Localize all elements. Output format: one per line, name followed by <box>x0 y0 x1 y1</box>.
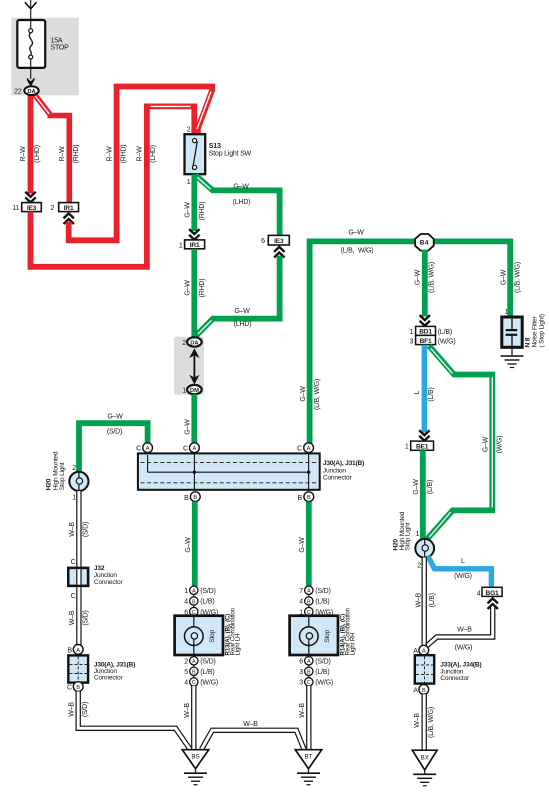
svg-text:(LHD): (LHD) <box>150 145 157 163</box>
label R14 rear combination light RH <box>340 607 357 655</box>
wire feed from stop fuse (page entry) <box>25 0 37 21</box>
svg-text:(S/D): (S/D) <box>82 702 89 717</box>
label G-W (RHD) lower <box>184 279 206 298</box>
connector BD1 pin 1 <box>409 326 451 336</box>
svg-text:2: 2 <box>417 562 421 569</box>
label W-B (S/D) mid left <box>69 610 90 625</box>
svg-text:(S/D): (S/D) <box>200 659 215 666</box>
label G-W (L/B) <box>413 479 434 495</box>
svg-text:2: 2 <box>182 340 186 347</box>
svg-text:W–B: W–B <box>299 703 306 718</box>
svg-text:(L/B): (L/B) <box>200 599 214 606</box>
svg-text:Junction: Junction <box>323 467 346 474</box>
label J30(A), J31(B) junction connector <box>323 460 364 482</box>
label G-W (LHD) upper horizontal <box>233 183 251 206</box>
svg-text:B: B <box>76 685 80 691</box>
rear combination light RH pins bottom <box>299 655 333 687</box>
svg-text:S13: S13 <box>209 143 221 150</box>
svg-text:L: L <box>461 558 465 565</box>
svg-text:B: B <box>184 495 189 502</box>
svg-text:DA: DA <box>190 340 199 346</box>
svg-text:A: A <box>307 446 311 452</box>
svg-text:Stop Light: Stop Light <box>405 522 412 550</box>
label R-W (LHD) wire 1 <box>20 145 41 163</box>
svg-text:BG1: BG1 <box>486 590 499 597</box>
wire G-W bus to B4 and noise filter <box>310 241 511 443</box>
wire R-W RHD from IR1 around to stop light switch <box>69 87 213 241</box>
svg-text:(LHD): (LHD) <box>233 199 251 206</box>
svg-text:G–W: G–W <box>184 202 191 218</box>
svg-text:(W/G): (W/G) <box>200 680 218 687</box>
svg-text:(S/D): (S/D) <box>200 588 215 595</box>
svg-text:(L/B): (L/B) <box>427 480 434 494</box>
wire W-B through J32 <box>68 567 88 646</box>
svg-text:2: 2 <box>72 465 76 472</box>
label N8 noise filter <box>525 314 546 347</box>
svg-text:(W/G): (W/G) <box>497 436 504 454</box>
label W-B (L/B, W/G) bottom right <box>414 707 435 738</box>
svg-text:G–W: G–W <box>233 183 249 190</box>
wire G-W from B4 down to BD1 <box>422 250 428 317</box>
junction pin C(A) left <box>136 443 152 453</box>
ground point BS <box>182 750 208 773</box>
arrow into BE1 <box>419 430 429 441</box>
svg-text:4: 4 <box>184 680 188 687</box>
svg-text:C: C <box>192 680 196 686</box>
svg-text:(L/B): (L/B) <box>429 593 436 607</box>
svg-text:2: 2 <box>187 127 191 134</box>
fuse 15A STOP <box>17 20 69 79</box>
svg-text:R–W: R–W <box>20 146 27 162</box>
junction pin B(B) right <box>298 492 314 502</box>
svg-text:(S/D): (S/D) <box>315 659 330 666</box>
stop light switch S13 <box>185 127 252 186</box>
svg-text:(L/B): (L/B) <box>315 599 329 606</box>
svg-text:B: B <box>307 599 311 605</box>
svg-text:(L/B, W/G): (L/B, W/G) <box>428 262 435 293</box>
svg-text:11: 11 <box>13 205 20 212</box>
svg-text:(RHD): (RHD) <box>120 145 127 164</box>
svg-text:IE3: IE3 <box>274 238 284 245</box>
svg-text:(L/B): (L/B) <box>200 669 214 676</box>
svg-text:3: 3 <box>409 338 413 345</box>
svg-text:B: B <box>67 648 72 655</box>
wire G-W RHD from IR1 to DA <box>191 249 197 338</box>
svg-text:1: 1 <box>416 531 420 538</box>
svg-text:Connector: Connector <box>440 675 470 682</box>
svg-text:G–W: G–W <box>234 308 250 315</box>
connector 2 DA (mating) <box>182 337 201 347</box>
junction connector J30(A) J31(B) small <box>68 655 88 682</box>
node B4 <box>415 234 434 251</box>
svg-text:2: 2 <box>184 659 188 666</box>
svg-text:C: C <box>183 446 188 453</box>
label G-W (L/B, W/G) on B4 horizontal <box>341 229 374 254</box>
label W-B (S/D) bottom left <box>69 702 90 717</box>
svg-text:W–B: W–B <box>69 522 76 537</box>
connector IE3 pin 6 <box>261 235 289 245</box>
svg-text:(W/G): (W/G) <box>455 645 473 652</box>
junction pin C(B) left small <box>67 682 83 692</box>
svg-text:(L/B, W/G): (L/B, W/G) <box>341 247 374 254</box>
wire R-W LHD from DA to IE3 <box>28 94 34 194</box>
label J33(A), J34(B) junction connector <box>440 662 481 682</box>
high mounted stop light H20 left <box>69 465 88 502</box>
label R13 rear combination light LH <box>225 607 242 655</box>
label G-W (L/B, W/G) on B4 drop <box>415 262 436 293</box>
svg-text:7: 7 <box>299 588 303 595</box>
connector BG1 pin 4 <box>477 587 502 597</box>
svg-text:STOP: STOP <box>51 45 70 52</box>
svg-text:A: A <box>192 589 196 595</box>
svg-text:(S/D): (S/D) <box>107 429 122 436</box>
svg-text:G–W: G–W <box>348 229 364 236</box>
connector 22 DA <box>14 86 39 95</box>
svg-text:4: 4 <box>477 590 481 597</box>
svg-text:G–W: G–W <box>185 537 192 553</box>
junction pin C(A) middle <box>183 443 199 453</box>
svg-text:R–W: R–W <box>137 146 144 162</box>
label J30(A), J31(B) small junction connector <box>94 661 135 681</box>
wire W-B lamp RH to ground BT <box>306 686 311 750</box>
svg-text:IR1: IR1 <box>64 205 74 212</box>
mating arrows DA-DM <box>189 348 199 384</box>
svg-text:G–W: G–W <box>482 436 489 452</box>
svg-text:B: B <box>193 495 197 501</box>
svg-text:3: 3 <box>299 669 303 676</box>
svg-text:W–B: W–B <box>243 721 258 728</box>
svg-text:15A: 15A <box>51 38 63 45</box>
rear combination light RH R14 <box>290 616 338 655</box>
connector mating shaded block DA/DM <box>174 337 204 395</box>
svg-text:A: A <box>422 649 426 655</box>
svg-text:B: B <box>298 495 303 502</box>
label W-B (W/G) <box>455 627 473 652</box>
junction pin A(B) right <box>413 685 428 695</box>
rear combination light LH pins top <box>184 586 218 616</box>
svg-text:G–W: G–W <box>184 280 191 296</box>
junction connector J30(A) J31(B) <box>138 453 320 489</box>
svg-text:B: B <box>422 688 426 694</box>
svg-text:A: A <box>192 659 196 665</box>
noise filter N8 <box>502 317 522 355</box>
wire W-B L/B from H20 pin 2 to junction pin A <box>422 558 427 646</box>
svg-text:(L/B): (L/B) <box>428 387 435 401</box>
label L (W/G) <box>454 558 472 580</box>
svg-text:W–B: W–B <box>69 702 76 717</box>
svg-text:J30(A), J31(B): J30(A), J31(B) <box>323 460 364 467</box>
svg-text:6: 6 <box>299 659 303 666</box>
wire G-W from DM to junction connector <box>191 394 197 443</box>
svg-text:5: 5 <box>184 669 188 676</box>
arrow into connector DA <box>27 78 35 88</box>
svg-text:(W/G): (W/G) <box>438 338 456 345</box>
high mounted stop light H20 right <box>415 531 434 569</box>
svg-text:W–B: W–B <box>415 592 422 607</box>
svg-text:(W/G): (W/G) <box>315 680 333 687</box>
svg-text:Light LH: Light LH <box>235 634 242 656</box>
svg-text:C: C <box>136 446 141 453</box>
wire R-W RHD from DA to IR1 <box>33 93 69 203</box>
svg-text:Stop: Stop <box>324 629 331 642</box>
wire G-W L/B from BE1 to H20 right pin 1 <box>420 450 426 540</box>
label G-W (W/G) right loop <box>482 436 503 454</box>
svg-text:Stop Light: Stop Light <box>59 462 66 490</box>
svg-text:IE3: IE3 <box>27 205 37 212</box>
svg-text:W–B: W–B <box>457 627 472 634</box>
connector IR1 pin 2 <box>51 203 79 212</box>
svg-text:R–W: R–W <box>107 146 114 162</box>
svg-text:A: A <box>307 659 311 665</box>
svg-text:BX: BX <box>421 755 429 762</box>
label G-W (S/D) left horizontal <box>107 414 123 436</box>
svg-text:A: A <box>413 687 418 694</box>
wire W-B link BS to BT <box>202 730 305 749</box>
svg-text:(S/D): (S/D) <box>315 588 330 595</box>
arrow into IR1 pin 1 <box>189 229 199 240</box>
wire R-W LHD from IE3 around to stop light switch <box>31 106 195 266</box>
ground point BT <box>295 750 321 773</box>
svg-text:BE1: BE1 <box>416 443 429 450</box>
junction pin B(A) left small <box>67 645 83 655</box>
svg-text:(W/G): (W/G) <box>454 573 472 580</box>
svg-text:C: C <box>71 593 76 600</box>
junction pin A(A) right <box>413 645 428 655</box>
svg-text:A: A <box>146 446 150 452</box>
svg-text:B: B <box>192 670 196 676</box>
svg-text:22: 22 <box>14 89 22 96</box>
wire L blue from BF1 to BE1 <box>422 345 428 433</box>
label W-B (L/B) <box>415 592 435 607</box>
svg-text:1: 1 <box>505 309 509 316</box>
svg-text:(L/B): (L/B) <box>315 669 329 676</box>
rear combination light LH pins bottom <box>184 655 218 687</box>
svg-text:(L/B): (L/B) <box>438 329 452 336</box>
svg-text:W–B: W–B <box>184 703 191 718</box>
label W-B (S/D) upper left <box>69 522 90 537</box>
svg-text:(LHD): (LHD) <box>34 145 41 163</box>
label L (L/B) <box>414 387 435 401</box>
svg-text:(L/B, W/G): (L/B, W/G) <box>314 379 321 410</box>
svg-text:G–W: G–W <box>501 269 508 285</box>
svg-text:G–W: G–W <box>107 414 123 421</box>
junction connector J32 <box>68 559 88 586</box>
svg-text:C: C <box>297 446 302 453</box>
svg-text:(RHD): (RHD) <box>199 202 206 221</box>
arrow into BG1 from below <box>488 598 498 609</box>
svg-text:J32: J32 <box>94 565 105 572</box>
svg-text:A: A <box>192 446 196 452</box>
svg-text:A: A <box>413 648 418 655</box>
label R-W (LHD) wire 4 <box>137 145 158 163</box>
svg-text:1: 1 <box>405 444 409 451</box>
wire G-W from junction connector to left high mounted stop light <box>79 423 148 472</box>
wire G-W LHD from IE3 pin6 back to DA <box>196 256 280 336</box>
junction connector J33(A) J34(B) <box>415 655 434 683</box>
svg-text:R–W: R–W <box>59 146 66 162</box>
wire W-B from C(B) to ground BS <box>78 692 189 749</box>
svg-text:B: B <box>307 495 311 501</box>
svg-text:DM: DM <box>190 388 199 394</box>
connector BF1 pin 3 <box>409 335 455 345</box>
svg-text:G–W: G–W <box>300 386 307 402</box>
svg-text:(L/B, W/G): (L/B, W/G) <box>428 707 435 738</box>
svg-text:Connector: Connector <box>94 675 124 682</box>
junction pin B(B) left <box>184 492 200 502</box>
svg-text:W–B: W–B <box>414 713 421 728</box>
wire W-B from A(B) to ground BX <box>422 694 427 750</box>
label G-W (RHD) upper <box>184 202 206 221</box>
label G-W (L/B, W/G) right drop <box>501 262 522 293</box>
svg-text:1: 1 <box>409 329 413 336</box>
svg-text:DA: DA <box>27 89 36 95</box>
svg-text:BS: BS <box>191 754 199 761</box>
svg-text:B: B <box>307 670 311 676</box>
svg-text:IR1: IR1 <box>190 242 200 249</box>
wire L W/G blue from H20 pin 2 to BG1 <box>428 557 491 588</box>
svg-text:1: 1 <box>187 179 191 186</box>
connector 1 DM (mating) <box>182 385 201 395</box>
svg-text:6: 6 <box>261 238 265 245</box>
svg-text:Stop Light SW: Stop Light SW <box>209 151 252 158</box>
svg-text:Noise Filter: Noise Filter <box>532 316 539 348</box>
connector IE3 pin 11 <box>13 203 42 212</box>
svg-text:G–W: G–W <box>413 479 420 495</box>
arrow into IR1 from below <box>63 213 73 224</box>
svg-text:Connector: Connector <box>323 475 353 482</box>
svg-text:C: C <box>307 680 311 686</box>
svg-text:C: C <box>67 685 72 692</box>
svg-text:Light RH: Light RH <box>350 633 357 656</box>
svg-text:G–W: G–W <box>415 269 422 285</box>
svg-text:2: 2 <box>51 205 55 212</box>
svg-text:G–W: G–W <box>184 419 191 435</box>
rear combination light RH pins top <box>299 586 333 616</box>
svg-text:1: 1 <box>184 588 188 595</box>
svg-text:(RHD): (RHD) <box>73 145 80 164</box>
rear combination light LH R13 <box>175 616 223 655</box>
svg-text:4: 4 <box>184 599 188 606</box>
power source shaded block <box>11 18 78 96</box>
wire G-W W/G from BF1 looping right to H20 pin 1 <box>427 346 492 539</box>
wire G-W junction to rear combination LH <box>192 502 198 587</box>
arrow into IE3 <box>25 192 35 203</box>
svg-text:(S/D): (S/D) <box>83 610 90 625</box>
svg-text:1: 1 <box>72 494 76 501</box>
wire W-B W/G from BG1 to junction <box>425 607 493 650</box>
wire G-W junction to rear combination RH <box>306 502 312 587</box>
junction pin C(A) right <box>297 443 314 453</box>
ground below noise filter <box>501 356 524 368</box>
arrow into BD1 <box>420 315 430 326</box>
svg-text:1: 1 <box>182 388 186 395</box>
label H20 high mounted stop light right <box>393 511 412 550</box>
svg-text:(LHD): (LHD) <box>234 321 252 328</box>
label R-W (RHD) wire 2 <box>59 145 80 164</box>
label G-W (L/B, W/G) on x310 drop <box>300 379 321 410</box>
svg-text:C: C <box>71 559 76 566</box>
svg-text:4: 4 <box>299 599 303 606</box>
label H20 high mounted stop light left <box>46 451 66 490</box>
svg-text:G–W: G–W <box>299 537 306 553</box>
svg-text:BF1: BF1 <box>420 338 432 345</box>
svg-text:W–B: W–B <box>69 610 76 625</box>
svg-text:Stop: Stop <box>209 629 216 642</box>
connector IR1 pin 1 <box>179 240 205 249</box>
wire W-B from H20 left to J32 <box>76 491 81 569</box>
svg-text:A: A <box>76 648 80 654</box>
svg-text:( Stop Light): ( Stop Light) <box>539 314 546 347</box>
svg-text:L: L <box>414 390 421 394</box>
svg-text:A: A <box>307 589 311 595</box>
wire G-W LHD from S13 pin1 to IE3 pin 6 <box>195 175 279 235</box>
arrow into IE3 pin 6 from below <box>274 247 284 258</box>
svg-text:Connector: Connector <box>94 579 124 586</box>
svg-text:(S/D): (S/D) <box>83 522 90 537</box>
svg-text:B: B <box>192 599 196 605</box>
svg-text:(L/B, W/G): (L/B, W/G) <box>515 262 522 293</box>
label G-W (LHD) lower horizontal <box>234 308 252 328</box>
svg-text:B4: B4 <box>420 240 429 247</box>
wire W-B lamp LH to ground BS <box>191 686 196 750</box>
svg-text:N 8: N 8 <box>525 337 532 347</box>
wire G-W RHD from S13 pin1 to IR1 <box>191 174 197 231</box>
svg-text:BT: BT <box>305 754 313 761</box>
svg-text:3: 3 <box>299 680 303 687</box>
svg-text:(RHD): (RHD) <box>199 279 206 298</box>
ground point BX <box>412 750 437 773</box>
connector BE1 pin 1 <box>405 441 434 451</box>
svg-text:1: 1 <box>179 242 183 249</box>
label R-W (RHD) wire 3 <box>107 145 128 164</box>
label J32 junction connector <box>94 565 124 586</box>
